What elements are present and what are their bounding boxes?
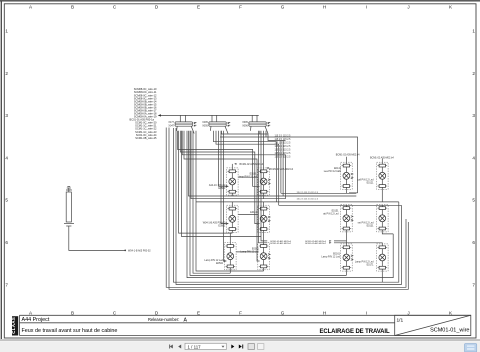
svg-text:E: E [197,311,200,316]
svg-text:115 2.5: 115 2.5 [275,153,283,155]
svg-text:Feux de travail avant sur haut: Feux de travail avant sur haut de cabine [22,328,118,334]
svg-text:H: H [323,4,326,9]
svg-text:W005: W005 [66,190,73,192]
svg-text:Lamp P/N 12 Led: Lamp P/N 12 Led [240,251,259,254]
svg-text:BCM1-02 A05-M02.b4: BCM1-02 A05-M02.b4 [370,156,394,159]
svg-text:CLAAS: CLAAS [11,317,16,334]
svg-text:E0111: E0111 [250,211,257,214]
svg-text:I: I [366,311,367,316]
svg-text:X096: X096 [242,125,248,128]
svg-text:A: A [29,4,33,9]
svg-text:X047: X047 [168,125,174,128]
svg-text:C: C [113,4,117,9]
svg-text:BCM1-02 A05-M02.b4: BCM1-02 A05-M02.b4 [240,163,264,166]
svg-text:7: 7 [472,282,475,287]
svg-text:E0171: E0171 [367,264,375,267]
svg-text:BCM1-02 A05 M02-b2: BCM1-02 A05 M02-b2 [305,242,326,245]
svg-text:3: 3 [472,113,475,118]
svg-text:B: B [71,311,74,316]
svg-text:3: 3 [5,113,8,118]
svg-text:F: F [239,4,242,9]
svg-text:115 2.5: 115 2.5 [283,149,291,151]
svg-text:G: G [281,4,285,9]
svg-text:115 2.5: 115 2.5 [275,139,283,141]
svg-text:att P/N 12 Led: att P/N 12 Led [323,213,339,216]
svg-text:115 2.5: 115 2.5 [283,135,291,137]
svg-text:E0501: E0501 [218,224,226,227]
svg-text:4: 4 [472,155,475,160]
svg-text:115 2.5: 115 2.5 [283,153,291,155]
svg-text:115 2.5: 115 2.5 [275,146,283,148]
svg-text:D: D [155,311,159,316]
svg-text:Lamp P/N 12 Led: Lamp P/N 12 Led [321,256,340,259]
svg-text:7: 7 [5,282,8,287]
svg-text:115 2.5 115 2.5 115 2.5: 115 2.5 115 2.5 115 2.5 [297,199,319,201]
svg-text:6: 6 [472,240,475,245]
svg-text:115 2.5: 115 2.5 [283,139,291,141]
svg-text:F: F [239,311,242,316]
svg-text:4: 4 [5,155,8,160]
svg-text:SCM01-01_wire: SCM01-01_wire [430,328,469,334]
svg-text:5: 5 [5,198,8,203]
svg-text:115 2.5: 115 2.5 [283,142,291,144]
svg-text:B: B [71,4,74,9]
svg-text:Release-number:: Release-number: [148,317,179,322]
svg-text:I: I [366,4,367,9]
svg-text:BCM1-02 A05-M02.b4: BCM1-02 A05-M02.b4 [336,154,360,157]
svg-text:115 2.5: 115 2.5 [275,149,283,151]
svg-text:1/1: 1/1 [397,317,404,323]
svg-text:H: H [323,311,326,316]
svg-text:G: G [281,311,285,316]
svg-text:A: A [184,317,188,323]
svg-text:115 2.5: 115 2.5 [283,156,291,158]
svg-text:A: A [29,311,33,316]
svg-text:1 / 117: 1 / 117 [188,344,202,349]
svg-text:1: 1 [5,29,8,34]
svg-text:E0502: E0502 [216,262,224,265]
svg-text:1: 1 [472,29,475,34]
svg-text:ECLAIRAGE DE TRAVAIL: ECLAIRAGE DE TRAVAIL [319,329,390,335]
svg-text:115 2.5: 115 2.5 [275,156,283,158]
svg-text:lamp P/N 12 Led: lamp P/N 12 Led [239,175,257,178]
svg-text:6: 6 [5,240,8,245]
svg-text:5: 5 [472,198,475,203]
svg-text:E0121: E0121 [367,182,375,185]
svg-text:115 2.5: 115 2.5 [275,142,283,144]
svg-text:SCM1-0B_wire-25: SCM1-0B_wire-25 [135,136,157,140]
svg-text:115 2.5 115 2.5 115 2.5: 115 2.5 115 2.5 115 2.5 [297,192,319,194]
svg-text:2: 2 [472,71,475,76]
svg-text:115 2.5: 115 2.5 [283,146,291,148]
svg-text:D: D [155,4,159,9]
svg-text:E: E [197,4,200,9]
svg-text:115 2.5: 115 2.5 [275,135,283,137]
svg-text:BCM1-02 A05 M02-b2: BCM1-02 A05 M02-b2 [270,242,291,245]
svg-text:E0501: E0501 [218,187,226,190]
svg-text:C: C [113,311,117,316]
svg-text:X095: X095 [202,125,208,128]
svg-text:J: J [407,4,409,9]
svg-text:BCM1-02 A05-M02.b4: BCM1-02 A05-M02.b4 [269,168,293,171]
svg-text:J: J [407,311,409,316]
svg-text:Lea P/N 12 LED: Lea P/N 12 LED [324,170,342,173]
svg-text:A44 Project: A44 Project [22,317,50,323]
svg-text:E0131: E0131 [367,224,375,227]
svg-text:K: K [449,311,453,316]
svg-text:W04-1-B A05 P00-02: W04-1-B A05 P00-02 [128,250,151,253]
svg-text:2: 2 [5,71,8,76]
svg-text:K: K [449,4,453,9]
